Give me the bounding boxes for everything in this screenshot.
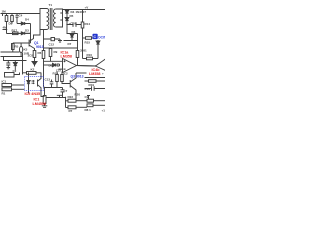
diode D1 down	[13, 61, 17, 71]
optocoupler LED	[27, 73, 30, 94]
optocoupler arrows	[32, 80, 35, 84]
svg-text:LM4558: LM4558	[33, 102, 47, 106]
svg-text:R9: R9	[54, 50, 58, 54]
wire primary bracket	[40, 9, 47, 30]
wire secondary bracket	[56, 9, 63, 27]
wire vertical x22	[22, 53, 24, 75]
resistor R5	[12, 44, 15, 50]
transformer T1 primary winding	[47, 9, 49, 30]
svg-text:R10: R10	[87, 53, 93, 57]
ground C2	[7, 68, 11, 69]
resistor R16	[76, 51, 79, 58]
wire vertical x82	[82, 10, 84, 59]
diode D4	[65, 10, 69, 18]
resistor box R21	[5, 73, 15, 78]
diode D9 fill	[96, 41, 100, 44]
svg-text:Q3 9013: Q3 9013	[71, 75, 84, 79]
capacitor C2 polarized	[6, 61, 10, 68]
ground up symbol	[57, 95, 62, 97]
resistor R7a row1	[66, 100, 69, 102]
svg-text:9013: 9013	[36, 45, 44, 49]
wire from box	[14, 73, 20, 75]
svg-text:3C8: 3C8	[28, 54, 34, 58]
svg-text:IC5 4N35: IC5 4N35	[25, 92, 41, 96]
wire right rail y77	[85, 77, 106, 79]
blue dashed box optocoupler	[25, 77, 44, 91]
svg-text:IC2: IC2	[63, 72, 68, 76]
svg-text:LM358: LM358	[89, 72, 100, 76]
wire mid-left bus	[7, 32, 31, 34]
diode D3	[18, 32, 31, 35]
svg-text:R19: R19	[89, 83, 95, 87]
svg-text:DCIN: DCIN	[98, 35, 105, 39]
ground R14v	[42, 104, 48, 108]
wire x77 down	[77, 41, 79, 51]
ground R6	[32, 58, 37, 67]
blue labels	[34, 41, 84, 79]
svg-text:C12: C12	[49, 43, 55, 47]
diode D2 fill	[21, 22, 24, 25]
svg-text:3581: 3581	[80, 48, 87, 52]
wire D6 mesh	[64, 25, 78, 41]
capacitor C10	[73, 22, 76, 27]
svg-text:LM358: LM358	[61, 55, 72, 59]
op-amp output	[77, 65, 96, 68]
resistor R14v bottom	[43, 96, 46, 104]
op-amp IC1a triangle	[63, 59, 77, 73]
svg-text:R22: R22	[68, 95, 74, 99]
capacitor C4	[16, 14, 19, 24]
node rectifier junction	[66, 24, 67, 25]
svg-text:+: +	[102, 72, 104, 76]
svg-text:C2: C2	[13, 69, 17, 73]
svg-text:D8: D8	[9, 22, 13, 26]
capacitor C14 polarized	[61, 88, 65, 98]
ground D8	[58, 63, 60, 67]
node C13 junction	[44, 87, 45, 88]
svg-text:C13: C13	[45, 78, 51, 82]
trimmer top	[87, 96, 90, 100]
resistor R11	[61, 75, 64, 82]
svg-text:1M: 1M	[2, 10, 7, 14]
ground C12	[58, 39, 62, 42]
svg-text:K2: K2	[31, 68, 35, 72]
wire secondary taps	[60, 13, 62, 20]
svg-text:D3: D3	[25, 29, 29, 33]
op-amp inputs	[44, 61, 63, 69]
wire bottom y97	[47, 97, 66, 99]
diode D4 fill	[65, 10, 69, 13]
resistor R12 above box	[23, 72, 27, 74]
svg-text:C7: C7	[64, 89, 68, 93]
resistor R13	[56, 75, 59, 82]
wire x44 down	[44, 88, 46, 96]
svg-text:D5: D5	[70, 14, 74, 18]
node left bus junction	[6, 29, 8, 31]
svg-text:+C10: +C10	[69, 22, 77, 26]
svg-text:R7: R7	[69, 109, 73, 113]
resistor R17	[13, 32, 19, 35]
svg-text:D6: D6	[72, 30, 76, 34]
red labels	[25, 51, 105, 106]
wire Q3 collector top	[76, 72, 87, 74]
black small labels	[2, 3, 106, 113]
svg-text:R17: R17	[12, 29, 18, 33]
diode D8 fill	[53, 63, 56, 66]
wire top-right rail	[63, 9, 106, 11]
svg-text:D4: D4	[25, 18, 29, 22]
resistor R4 on x43	[42, 51, 45, 59]
svg-text:+1: +1	[102, 109, 106, 113]
transistor Q3	[70, 73, 76, 100]
wire C12 row	[44, 38, 61, 40]
svg-text:T1: T1	[49, 3, 53, 7]
capacitor C16	[85, 86, 106, 90]
diode D6 fill	[70, 34, 73, 37]
wire bus y56	[1, 57, 27, 61]
resistor R6	[33, 51, 36, 58]
wire y87	[45, 87, 63, 89]
diode D2	[17, 22, 31, 25]
resistor Rb horizontal	[2, 88, 12, 91]
svg-text:+V: +V	[85, 6, 89, 10]
resistor Ra horizontal	[2, 84, 12, 87]
LED IC5 fill	[27, 81, 30, 84]
svg-text:C16: C16	[85, 87, 91, 91]
svg-text:D8: D8	[49, 64, 53, 68]
resistor R2	[6, 14, 8, 24]
svg-text:R8 1: R8 1	[85, 108, 92, 112]
node bus-primary junction	[3, 29, 7, 31]
diode D6	[70, 34, 73, 41]
diode D5 fill	[65, 18, 69, 21]
resistor R9	[50, 47, 52, 50]
wire fanout right	[77, 59, 106, 71]
svg-text:IC1: IC1	[2, 80, 7, 84]
svg-text:C9: C9	[85, 95, 89, 99]
node bottom row junction	[65, 97, 66, 98]
capacitor C17 small	[87, 104, 93, 107]
wire lower-left L	[1, 51, 20, 53]
resistor R7 row2	[66, 107, 69, 109]
node op-amp output junction	[95, 65, 96, 66]
optocoupler transistor	[38, 73, 45, 97]
diode D9 below blue box	[96, 40, 100, 59]
svg-text:R6: R6	[38, 51, 42, 55]
resistor R8	[87, 99, 94, 102]
wire stub x2	[2, 14, 4, 17]
wire rectifier out	[67, 24, 81, 26]
resistor R14	[81, 22, 84, 28]
wire top-left bus	[1, 13, 41, 15]
wire y47.5 row	[44, 47, 78, 49]
transformer core	[49, 8, 51, 30]
wire Q1 base row	[13, 42, 31, 44]
resistor R19	[85, 80, 89, 82]
wire x65 down	[65, 98, 67, 108]
svg-text:R15: R15	[85, 41, 91, 45]
wire D8 row	[44, 64, 53, 66]
svg-text:R13: R13	[53, 72, 59, 76]
transistor Q1	[29, 30, 40, 51]
svg-text:C4: C4	[19, 14, 23, 18]
svg-text:R5: R5	[15, 45, 19, 49]
blue highlight badge	[93, 34, 98, 39]
diode D5	[65, 18, 69, 25]
svg-text:R1: R1	[2, 92, 6, 96]
wire long vertical x43	[43, 30, 45, 88]
resistor R15	[83, 37, 86, 39]
ground R6 fill	[32, 62, 37, 66]
wire R10 row	[83, 58, 87, 60]
svg-text:R14: R14	[85, 22, 91, 26]
svg-text:1N4007: 1N4007	[76, 10, 87, 14]
wire left vertical	[6, 24, 8, 34]
svg-text:4M: 4M	[3, 26, 8, 30]
wire D2 node down	[30, 24, 32, 44]
diode D3 fill	[21, 32, 24, 35]
capacitor C12	[51, 38, 55, 41]
diode D1 fill	[13, 63, 17, 66]
svg-text:R20: R20	[75, 93, 81, 97]
resistor R3	[11, 14, 13, 24]
svg-text:D7: D7	[68, 42, 72, 46]
capacitor K5 oval	[20, 47, 23, 53]
transformer T1 secondary winding	[54, 9, 56, 27]
capacitor C13	[50, 80, 54, 88]
diode D8	[53, 63, 59, 66]
